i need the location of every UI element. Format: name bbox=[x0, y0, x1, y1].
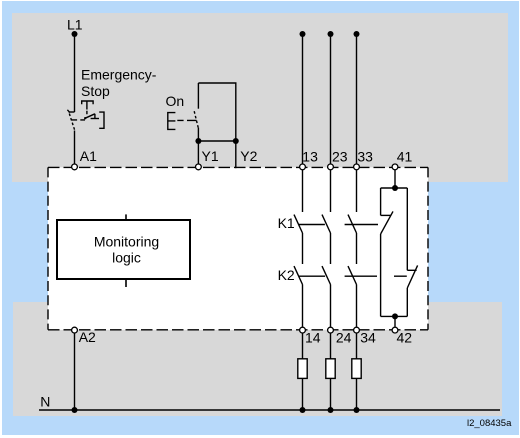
feed wire 33 bbox=[356, 34, 358, 165]
junction dot feed 23 bbox=[328, 31, 334, 37]
terminal 23 bbox=[328, 164, 334, 170]
relay box top edge (dashed) bbox=[48, 166, 428, 168]
junction dot N-14 bbox=[300, 407, 306, 413]
wire 41 branch right vertical lower bbox=[406, 288, 408, 316]
svg-text:On: On bbox=[166, 93, 185, 109]
junction dot Y1 bbox=[195, 138, 201, 144]
junction dot Y2 bbox=[233, 138, 239, 144]
estop mushroom actuator bbox=[82, 101, 93, 114]
svg-text:K1: K1 bbox=[278, 215, 295, 231]
svg-text:33: 33 bbox=[357, 148, 373, 164]
K2 contact column 23 bbox=[322, 266, 331, 284]
K1 contact column 23 bbox=[330, 169, 332, 212]
emergency stop contact bbox=[69, 111, 75, 113]
K1 contact column 13 bbox=[302, 169, 304, 212]
relay box (dashed) bbox=[48, 167, 428, 329]
terminal 33 bbox=[354, 164, 360, 170]
K2 contact column 13 bbox=[294, 266, 303, 284]
svg-text:34: 34 bbox=[360, 329, 376, 345]
terminal A1 bbox=[72, 164, 78, 170]
svg-text:Stop: Stop bbox=[81, 83, 110, 99]
resistor R3 bbox=[352, 359, 361, 379]
terminal A2 bbox=[72, 327, 78, 333]
K1 contact column 33 bbox=[356, 169, 358, 212]
svg-text:Y1: Y1 bbox=[202, 148, 219, 164]
wire 41 branch bottom horizontal bbox=[381, 315, 408, 317]
svg-text:Y2: Y2 bbox=[240, 148, 257, 164]
terminal 24 bbox=[328, 327, 334, 333]
svg-text:14: 14 bbox=[305, 329, 321, 345]
svg-text:42: 42 bbox=[397, 329, 413, 345]
junction dot N-24 bbox=[328, 407, 334, 413]
NC contact K2 in 41 branch bbox=[407, 269, 416, 271]
svg-text:41: 41 bbox=[397, 148, 413, 164]
junction dot 41 branch top bbox=[392, 185, 398, 191]
On linkage dashes bbox=[177, 119, 196, 121]
svg-text:A2: A2 bbox=[79, 329, 96, 345]
wire Y2 down bbox=[235, 141, 237, 168]
relay box left edge (dashed) bbox=[47, 167, 49, 329]
monitoring logic box U1 bbox=[57, 214, 190, 287]
junction dot feed 33 bbox=[354, 31, 360, 37]
wire resistor1 to N bbox=[302, 378, 304, 410]
top gray band bbox=[12, 13, 508, 182]
svg-text:24: 24 bbox=[336, 329, 352, 345]
terminal 41 bbox=[392, 164, 398, 170]
node N wire bbox=[39, 409, 500, 411]
resistor R1 bbox=[298, 359, 307, 379]
junction dot L1 bbox=[72, 31, 78, 37]
estop bracket bbox=[99, 112, 104, 128]
wire 41 terminal to junction bbox=[394, 169, 396, 188]
svg-text:logic: logic bbox=[112, 250, 141, 266]
wire 24 to resistor bbox=[330, 332, 332, 359]
relay box right edge (dashed) bbox=[427, 167, 429, 329]
svg-text:A1: A1 bbox=[80, 148, 97, 164]
relay box bottom edge (dashed) bbox=[48, 329, 428, 331]
terminal 13 bbox=[300, 164, 306, 170]
terminal 34 bbox=[354, 327, 360, 333]
feed wire 23 bbox=[330, 34, 332, 165]
wire resistor3 to N bbox=[356, 378, 358, 410]
svg-text:23: 23 bbox=[332, 148, 348, 164]
wire 41 branch top horizontal bbox=[381, 187, 408, 189]
wire col23 mid bbox=[330, 233, 332, 264]
wire Y1 down bbox=[197, 141, 199, 165]
wire col13 mid bbox=[302, 233, 304, 264]
node L1 wire bbox=[74, 34, 76, 112]
svg-text:Monitoring: Monitoring bbox=[94, 234, 159, 250]
wire resistor2 to N bbox=[330, 378, 332, 410]
On button E actuator bbox=[168, 113, 176, 130]
estop second contact bbox=[85, 114, 95, 119]
wire A2 to N bbox=[74, 333, 76, 410]
svg-text:l2_08435a: l2_08435a bbox=[467, 418, 512, 429]
wire 41 branch left vertical upper bbox=[380, 188, 382, 215]
svg-text:K2: K2 bbox=[278, 267, 295, 283]
wire 14 to resistor bbox=[302, 332, 304, 359]
wire 34 to resistor bbox=[356, 332, 358, 359]
estop linkage dashes bbox=[72, 119, 85, 121]
wire to 42 terminal bbox=[394, 316, 396, 326]
junction dot 41 branch bottom bbox=[392, 313, 398, 319]
On branch loop wire bbox=[198, 83, 235, 141]
feed wire 13 bbox=[302, 34, 304, 165]
junction dot feed 13 bbox=[300, 31, 306, 37]
NC contact K1 in 41 branch bbox=[381, 214, 391, 216]
wire 41 branch right vertical upper bbox=[406, 188, 408, 270]
On NO contact bbox=[197, 83, 199, 109]
svg-text:N: N bbox=[40, 394, 50, 410]
svg-text:13: 13 bbox=[302, 148, 318, 164]
junction dot N-A2 bbox=[72, 407, 78, 413]
K1 linkage line bbox=[299, 224, 378, 226]
wire col33 mid bbox=[356, 233, 358, 264]
terminal Y1 bbox=[196, 164, 202, 170]
K2 contact column 33 bbox=[348, 266, 357, 284]
terminal 42 bbox=[392, 327, 398, 333]
junction dot N-34 bbox=[354, 407, 360, 413]
K2 linkage line bbox=[299, 275, 407, 277]
wire 41 branch left vertical lower bbox=[380, 234, 382, 316]
wire Y1-Y2 bbox=[198, 140, 235, 142]
svg-text:Emergency-: Emergency- bbox=[81, 67, 157, 83]
resistor R2 bbox=[326, 359, 335, 379]
terminal 14 bbox=[300, 327, 306, 333]
svg-text:L1: L1 bbox=[67, 17, 83, 33]
bottom gray band bbox=[13, 302, 502, 416]
